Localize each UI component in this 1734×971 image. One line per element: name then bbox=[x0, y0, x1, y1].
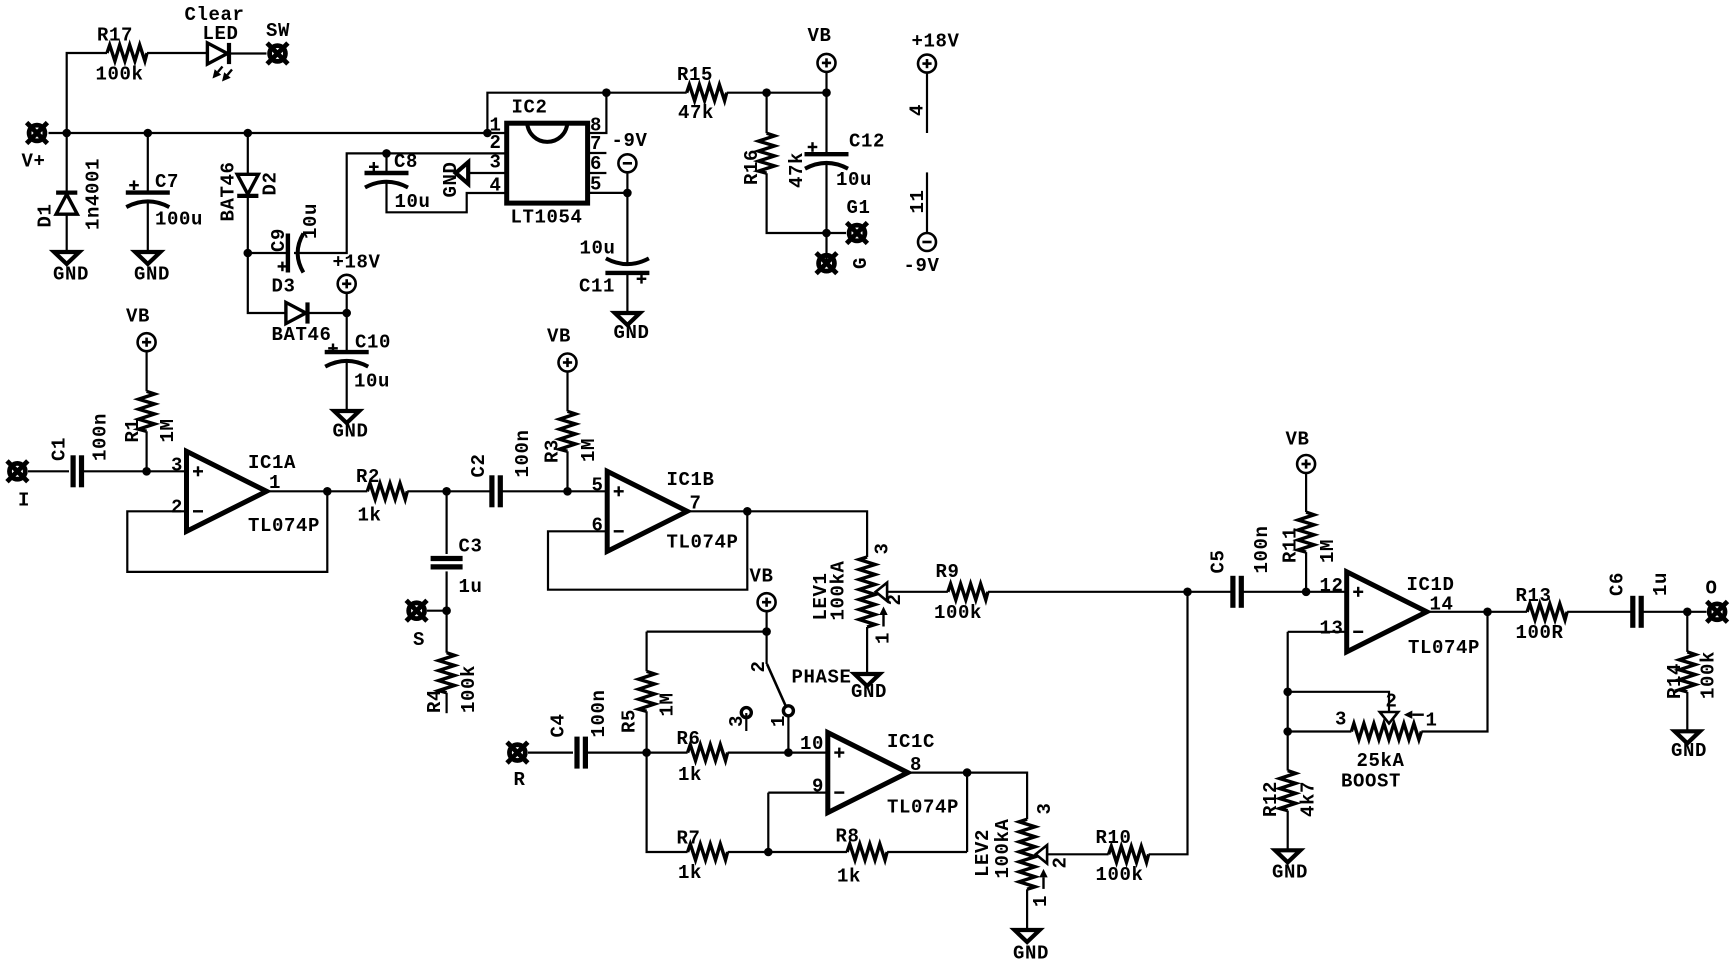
op-amp U IC1A bbox=[187, 451, 267, 531]
junction bbox=[764, 848, 773, 857]
potentiometer LEV1 bbox=[859, 557, 875, 627]
resistor R10 bbox=[1109, 846, 1149, 862]
wire pin11 stub bbox=[926, 172, 928, 233]
svg-text:C6: C6 bbox=[1607, 572, 1629, 596]
wiper LEV2 bbox=[1036, 845, 1047, 863]
plus mark C10 bbox=[328, 344, 338, 354]
potentiometer LEV2 bbox=[1019, 819, 1035, 889]
svg-text:47k: 47k bbox=[786, 152, 808, 188]
wire bbox=[146, 351, 148, 392]
ground bbox=[54, 252, 79, 264]
svg-text:C2: C2 bbox=[468, 453, 490, 477]
wire bbox=[768, 791, 828, 793]
wire bbox=[566, 451, 568, 491]
wire to wiper bbox=[1288, 692, 1389, 712]
svg-text:+18V: +18V bbox=[912, 31, 960, 53]
ground bbox=[135, 252, 160, 264]
resistor R3 bbox=[560, 411, 576, 451]
svg-text:3: 3 bbox=[1034, 802, 1056, 814]
svg-text:GND: GND bbox=[1013, 943, 1049, 965]
svg-text:C1: C1 bbox=[49, 437, 71, 461]
ground bbox=[615, 313, 640, 325]
svg-text:7: 7 bbox=[590, 133, 602, 155]
resistor R6 bbox=[688, 745, 728, 761]
svg-text:100R: 100R bbox=[1516, 622, 1564, 644]
diode LED D4 bbox=[207, 43, 229, 64]
svg-text:C8: C8 bbox=[394, 151, 418, 173]
wire IC1D out bbox=[1427, 611, 1488, 613]
svg-text:IC2: IC2 bbox=[512, 97, 548, 119]
wire bbox=[66, 133, 68, 193]
svg-text:10u: 10u bbox=[580, 238, 616, 260]
wire bbox=[626, 193, 628, 266]
svg-text:R7: R7 bbox=[677, 828, 701, 850]
resistor R8 bbox=[847, 844, 887, 860]
wire bbox=[327, 490, 367, 492]
svg-text:D1: D1 bbox=[35, 203, 57, 227]
svg-text:GND: GND bbox=[440, 161, 462, 197]
svg-text:C4: C4 bbox=[548, 713, 570, 737]
capacitor C9 bbox=[288, 234, 304, 273]
wire bbox=[427, 610, 447, 612]
svg-text:2: 2 bbox=[884, 593, 906, 605]
junction pin1 node bbox=[483, 129, 492, 138]
wire bbox=[385, 153, 387, 171]
resistor R13 bbox=[1527, 604, 1567, 620]
junction bbox=[563, 487, 572, 496]
svg-text:1: 1 bbox=[873, 632, 895, 644]
svg-text:1: 1 bbox=[768, 715, 790, 727]
pad G1 bbox=[847, 223, 868, 244]
wire bbox=[1641, 611, 1706, 613]
svg-text:100k: 100k bbox=[96, 64, 144, 86]
svg-text:VB: VB bbox=[126, 306, 150, 328]
svg-text:LT1054: LT1054 bbox=[511, 207, 583, 229]
capacitor C12 bbox=[805, 154, 849, 169]
junction bbox=[442, 487, 451, 496]
pad G bbox=[816, 253, 837, 274]
wire bbox=[887, 591, 948, 593]
ground bbox=[334, 411, 359, 423]
diode D1 bbox=[56, 193, 77, 215]
wire bbox=[66, 213, 68, 252]
resistor R4 bbox=[439, 653, 455, 693]
junction bbox=[784, 748, 793, 757]
diode D3 bbox=[286, 302, 308, 323]
svg-text:R17: R17 bbox=[97, 25, 133, 47]
svg-text:2: 2 bbox=[1386, 691, 1398, 713]
svg-text:R14: R14 bbox=[1664, 663, 1686, 699]
wire bbox=[645, 711, 647, 752]
wire V+ rail bbox=[49, 132, 507, 134]
wire pin4 stub bbox=[926, 72, 928, 133]
svg-text:100k: 100k bbox=[1096, 864, 1144, 886]
capacitor C4 bbox=[577, 737, 585, 769]
svg-text:LED: LED bbox=[203, 23, 239, 45]
svg-text:100n: 100n bbox=[512, 429, 534, 477]
svg-text:VB: VB bbox=[1286, 429, 1310, 451]
junction bbox=[602, 88, 611, 97]
wire bbox=[645, 632, 647, 672]
supply VB bbox=[138, 333, 156, 351]
wire bbox=[1287, 632, 1289, 692]
resistor R12 bbox=[1280, 771, 1296, 811]
svg-text:10: 10 bbox=[800, 733, 824, 755]
wire bbox=[407, 490, 446, 492]
junction bbox=[822, 88, 831, 97]
adjust arrow BOOST bbox=[1412, 714, 1424, 716]
svg-text:100kA: 100kA bbox=[992, 818, 1014, 878]
wire bbox=[346, 292, 348, 313]
pad O bbox=[1707, 601, 1728, 622]
wire bbox=[1305, 473, 1307, 512]
junction bbox=[743, 507, 752, 516]
svg-text:10u: 10u bbox=[300, 203, 322, 239]
supply VB bbox=[1297, 455, 1315, 473]
wire contact1 down bbox=[787, 716, 789, 753]
adjust arrow LEV2 bbox=[1042, 877, 1044, 889]
pad SW bbox=[267, 43, 288, 64]
svg-text:R5: R5 bbox=[619, 709, 641, 733]
wire bbox=[82, 470, 187, 472]
junction bbox=[642, 748, 651, 757]
svg-text:1k: 1k bbox=[678, 764, 702, 786]
svg-text:3: 3 bbox=[1335, 709, 1347, 731]
wire bbox=[247, 133, 249, 174]
junction bbox=[244, 249, 253, 258]
wire bbox=[1026, 889, 1028, 930]
svg-text:BOOST: BOOST bbox=[1341, 771, 1401, 793]
wire bbox=[346, 313, 348, 352]
resistor R1 bbox=[139, 391, 155, 431]
op-amp U IC1B bbox=[607, 471, 687, 551]
junction bbox=[762, 88, 771, 97]
wire bbox=[866, 627, 868, 674]
svg-text:100u: 100u bbox=[155, 209, 203, 231]
junction bbox=[382, 149, 391, 158]
svg-text:9: 9 bbox=[812, 776, 824, 798]
wire bbox=[626, 172, 628, 193]
svg-text:-9V: -9V bbox=[904, 255, 940, 277]
switch contact 1 bbox=[783, 706, 793, 716]
wire bbox=[1288, 730, 1352, 732]
resistor R9 bbox=[948, 584, 988, 600]
wire to LEV2 bbox=[967, 773, 1027, 820]
capacitor C10 bbox=[325, 352, 369, 367]
pad I bbox=[7, 461, 28, 482]
wire LED-SW bbox=[229, 52, 267, 54]
svg-text:11: 11 bbox=[907, 189, 929, 213]
supply VB bbox=[559, 354, 577, 372]
svg-text:100n: 100n bbox=[588, 689, 610, 737]
supply VB bbox=[818, 54, 836, 72]
wire pin8 bbox=[588, 93, 607, 133]
svg-text:3: 3 bbox=[171, 455, 183, 477]
svg-text:R12: R12 bbox=[1260, 781, 1282, 817]
svg-text:R11: R11 bbox=[1280, 527, 1302, 563]
svg-text:O: O bbox=[1706, 578, 1718, 600]
svg-text:2: 2 bbox=[748, 660, 770, 672]
svg-text:R9: R9 bbox=[936, 561, 960, 583]
svg-text:1u: 1u bbox=[1650, 572, 1672, 596]
wire bbox=[566, 371, 568, 411]
wire R17-LED bbox=[147, 52, 207, 54]
svg-text:S: S bbox=[413, 629, 425, 651]
wire R10 up to C5 node bbox=[1149, 592, 1188, 855]
junction bbox=[963, 768, 972, 777]
plus mark C12 bbox=[808, 142, 818, 152]
wire bbox=[647, 630, 767, 632]
svg-text:IC1C: IC1C bbox=[887, 731, 935, 753]
wire to LEV1 bbox=[747, 511, 867, 557]
wire to D3 bbox=[248, 253, 286, 313]
wire bbox=[308, 312, 347, 314]
svg-text:1M: 1M bbox=[657, 692, 679, 716]
wire pin1 to R15 bbox=[487, 93, 686, 133]
svg-text:IC1A: IC1A bbox=[248, 452, 296, 474]
svg-text:R6: R6 bbox=[677, 728, 701, 750]
wire bbox=[528, 751, 573, 753]
switch contact 3 bbox=[741, 708, 751, 718]
wire bbox=[147, 133, 149, 193]
wire bbox=[585, 751, 687, 753]
wire bbox=[446, 611, 448, 653]
capacitor C11 bbox=[605, 258, 649, 273]
junction bbox=[762, 627, 771, 636]
resistor R5 bbox=[639, 671, 655, 711]
svg-text:R10: R10 bbox=[1096, 827, 1132, 849]
svg-text:TL074P: TL074P bbox=[248, 515, 320, 537]
junction bbox=[1283, 688, 1292, 697]
svg-text:25kA: 25kA bbox=[1357, 750, 1405, 772]
wire bbox=[887, 851, 967, 853]
svg-text:GND: GND bbox=[1671, 740, 1707, 762]
wire bbox=[765, 93, 767, 134]
diode D2 bbox=[237, 174, 258, 196]
junction bbox=[342, 309, 351, 318]
ground bbox=[1275, 850, 1300, 862]
ground bbox=[1675, 731, 1700, 743]
wire bbox=[346, 361, 348, 412]
capacitor C8 bbox=[365, 173, 409, 188]
resistor R11 bbox=[1298, 512, 1314, 552]
svg-text:2: 2 bbox=[171, 497, 183, 519]
svg-text:GND: GND bbox=[614, 322, 650, 344]
svg-text:100n: 100n bbox=[90, 413, 112, 461]
wire bbox=[1047, 853, 1109, 855]
svg-text:1M: 1M bbox=[1317, 539, 1339, 563]
wire bbox=[728, 751, 828, 753]
wire bbox=[1488, 611, 1528, 613]
wire bbox=[446, 491, 448, 554]
svg-text:4: 4 bbox=[907, 104, 929, 116]
svg-text:C3: C3 bbox=[459, 536, 483, 558]
svg-text:100k: 100k bbox=[934, 602, 982, 624]
junction bbox=[1483, 608, 1492, 617]
svg-text:C7: C7 bbox=[155, 171, 179, 193]
svg-text:10u: 10u bbox=[395, 191, 431, 213]
junction bbox=[142, 467, 151, 476]
wire bbox=[447, 490, 492, 492]
svg-text:6: 6 bbox=[591, 515, 603, 537]
plus mark C11 bbox=[637, 274, 647, 284]
supply VB bbox=[758, 593, 776, 611]
svg-text:100n: 100n bbox=[1251, 525, 1273, 573]
svg-text:C11: C11 bbox=[579, 276, 615, 298]
wire IC1B feedback bbox=[548, 511, 747, 589]
wiper BOOST bbox=[1380, 712, 1398, 723]
wire bbox=[147, 201, 149, 252]
adjust arrow LEV1 bbox=[882, 615, 884, 627]
wire bbox=[568, 490, 608, 492]
svg-text:R1: R1 bbox=[122, 418, 144, 442]
svg-text:SW: SW bbox=[266, 20, 290, 42]
wiper LEV1 bbox=[876, 583, 887, 601]
svg-text:GND: GND bbox=[851, 681, 887, 703]
svg-text:R4: R4 bbox=[424, 689, 446, 713]
wire bbox=[1567, 611, 1633, 613]
junction bbox=[244, 129, 253, 138]
wire bbox=[28, 470, 69, 472]
wire bbox=[1241, 591, 1306, 593]
junction bbox=[623, 189, 632, 198]
resistor R2 bbox=[367, 483, 407, 499]
svg-text:13: 13 bbox=[1319, 618, 1343, 640]
wire bbox=[728, 851, 848, 853]
wire to R17 bbox=[67, 53, 107, 133]
wire R15 to VB node bbox=[727, 92, 827, 94]
svg-text:1k: 1k bbox=[678, 862, 702, 884]
svg-text:5: 5 bbox=[591, 475, 603, 497]
wire pin13 bbox=[1288, 631, 1347, 633]
svg-text:3: 3 bbox=[872, 542, 894, 554]
wire IC1C feedback bbox=[966, 773, 968, 852]
wire C8 to IC2 pin4 bbox=[387, 181, 507, 212]
wire bbox=[1686, 612, 1688, 652]
wire bbox=[446, 693, 448, 714]
svg-text:GND: GND bbox=[53, 264, 89, 286]
svg-text:I: I bbox=[18, 490, 30, 512]
wire bbox=[825, 72, 827, 93]
svg-text:LEV2: LEV2 bbox=[972, 829, 994, 877]
svg-text:-9V: -9V bbox=[612, 130, 648, 152]
resistor R17 bbox=[107, 45, 147, 61]
svg-text:GND: GND bbox=[1272, 862, 1308, 884]
wire bbox=[468, 172, 506, 174]
wire bbox=[1306, 591, 1347, 593]
svg-text:D2: D2 bbox=[260, 171, 282, 195]
wire BOOST to out bbox=[1421, 612, 1487, 732]
wire IC1A out bbox=[267, 490, 328, 492]
ground bbox=[1015, 930, 1040, 942]
resistor R14 bbox=[1679, 652, 1695, 692]
svg-text:100k: 100k bbox=[458, 665, 480, 713]
svg-text:3: 3 bbox=[489, 152, 501, 174]
wire to G1 bbox=[827, 232, 847, 234]
resistor R7 bbox=[688, 844, 728, 860]
svg-text:D3: D3 bbox=[272, 276, 296, 298]
svg-text:IC1B: IC1B bbox=[667, 469, 715, 491]
pad S bbox=[406, 600, 427, 621]
svg-text:10u: 10u bbox=[354, 371, 390, 393]
wire IC1A feedback bbox=[127, 491, 327, 572]
wire bbox=[1287, 811, 1289, 851]
svg-text:1: 1 bbox=[1030, 895, 1052, 907]
wire bbox=[1188, 591, 1233, 593]
svg-text:1: 1 bbox=[1426, 710, 1438, 732]
wire pin6 stub bbox=[588, 172, 607, 174]
supply -9V bbox=[918, 233, 936, 251]
plus mark C8 bbox=[369, 162, 379, 172]
junction bbox=[1683, 608, 1692, 617]
wire bbox=[146, 431, 148, 471]
wire bbox=[1287, 732, 1289, 771]
junction bbox=[822, 229, 831, 238]
wire bbox=[825, 93, 827, 155]
svg-text:G1: G1 bbox=[847, 197, 871, 219]
svg-text:4: 4 bbox=[489, 175, 501, 197]
junction bbox=[1283, 727, 1292, 736]
svg-text:TL074P: TL074P bbox=[1408, 637, 1480, 659]
junction bbox=[1302, 588, 1311, 597]
wire bbox=[765, 611, 767, 632]
svg-text:V+: V+ bbox=[22, 151, 46, 173]
svg-text:G: G bbox=[850, 257, 872, 269]
resistor R15 bbox=[687, 85, 727, 101]
wire switch pin2 bbox=[765, 632, 767, 664]
wire bbox=[1305, 552, 1307, 592]
wire bbox=[1287, 692, 1289, 732]
capacitor C3 bbox=[431, 559, 463, 567]
svg-text:1M: 1M bbox=[157, 418, 179, 442]
svg-text:R16: R16 bbox=[741, 149, 763, 185]
wire bbox=[248, 252, 288, 254]
wire IC1C out bbox=[908, 771, 967, 773]
svg-text:C5: C5 bbox=[1208, 549, 1230, 573]
svg-text:VB: VB bbox=[547, 326, 571, 348]
capacitor C5 bbox=[1233, 576, 1241, 608]
capacitor C6 bbox=[1633, 596, 1641, 628]
svg-text:100k: 100k bbox=[1698, 651, 1720, 699]
svg-text:100kA: 100kA bbox=[828, 560, 850, 620]
svg-text:R13: R13 bbox=[1516, 585, 1552, 607]
wire bbox=[446, 571, 448, 610]
wire C12 to G pad bbox=[825, 162, 827, 263]
wire C9 to IC2 pin2 bbox=[294, 153, 507, 253]
junction bbox=[144, 129, 153, 138]
op-amp U IC1D bbox=[1347, 572, 1427, 652]
svg-text:BAT46: BAT46 bbox=[272, 324, 332, 346]
wire IC1B out bbox=[687, 510, 747, 512]
potentiometer BOOST 25kA bbox=[1351, 724, 1421, 740]
svg-text:C12: C12 bbox=[849, 131, 885, 153]
svg-text:GND: GND bbox=[333, 421, 369, 443]
plus mark C7 bbox=[129, 180, 139, 190]
wire bbox=[988, 591, 1188, 593]
svg-text:R15: R15 bbox=[677, 64, 713, 86]
capacitor C2 bbox=[492, 475, 500, 507]
ground bbox=[855, 674, 880, 686]
svg-text:TL074P: TL074P bbox=[887, 797, 959, 819]
supply +18V bbox=[918, 55, 936, 73]
svg-text:4k7: 4k7 bbox=[1298, 781, 1320, 817]
wire bbox=[500, 490, 567, 492]
svg-text:R: R bbox=[514, 769, 526, 791]
plus mark C9 bbox=[278, 262, 288, 272]
pad R bbox=[507, 742, 528, 763]
svg-text:6: 6 bbox=[590, 153, 602, 175]
svg-text:3: 3 bbox=[726, 715, 748, 727]
